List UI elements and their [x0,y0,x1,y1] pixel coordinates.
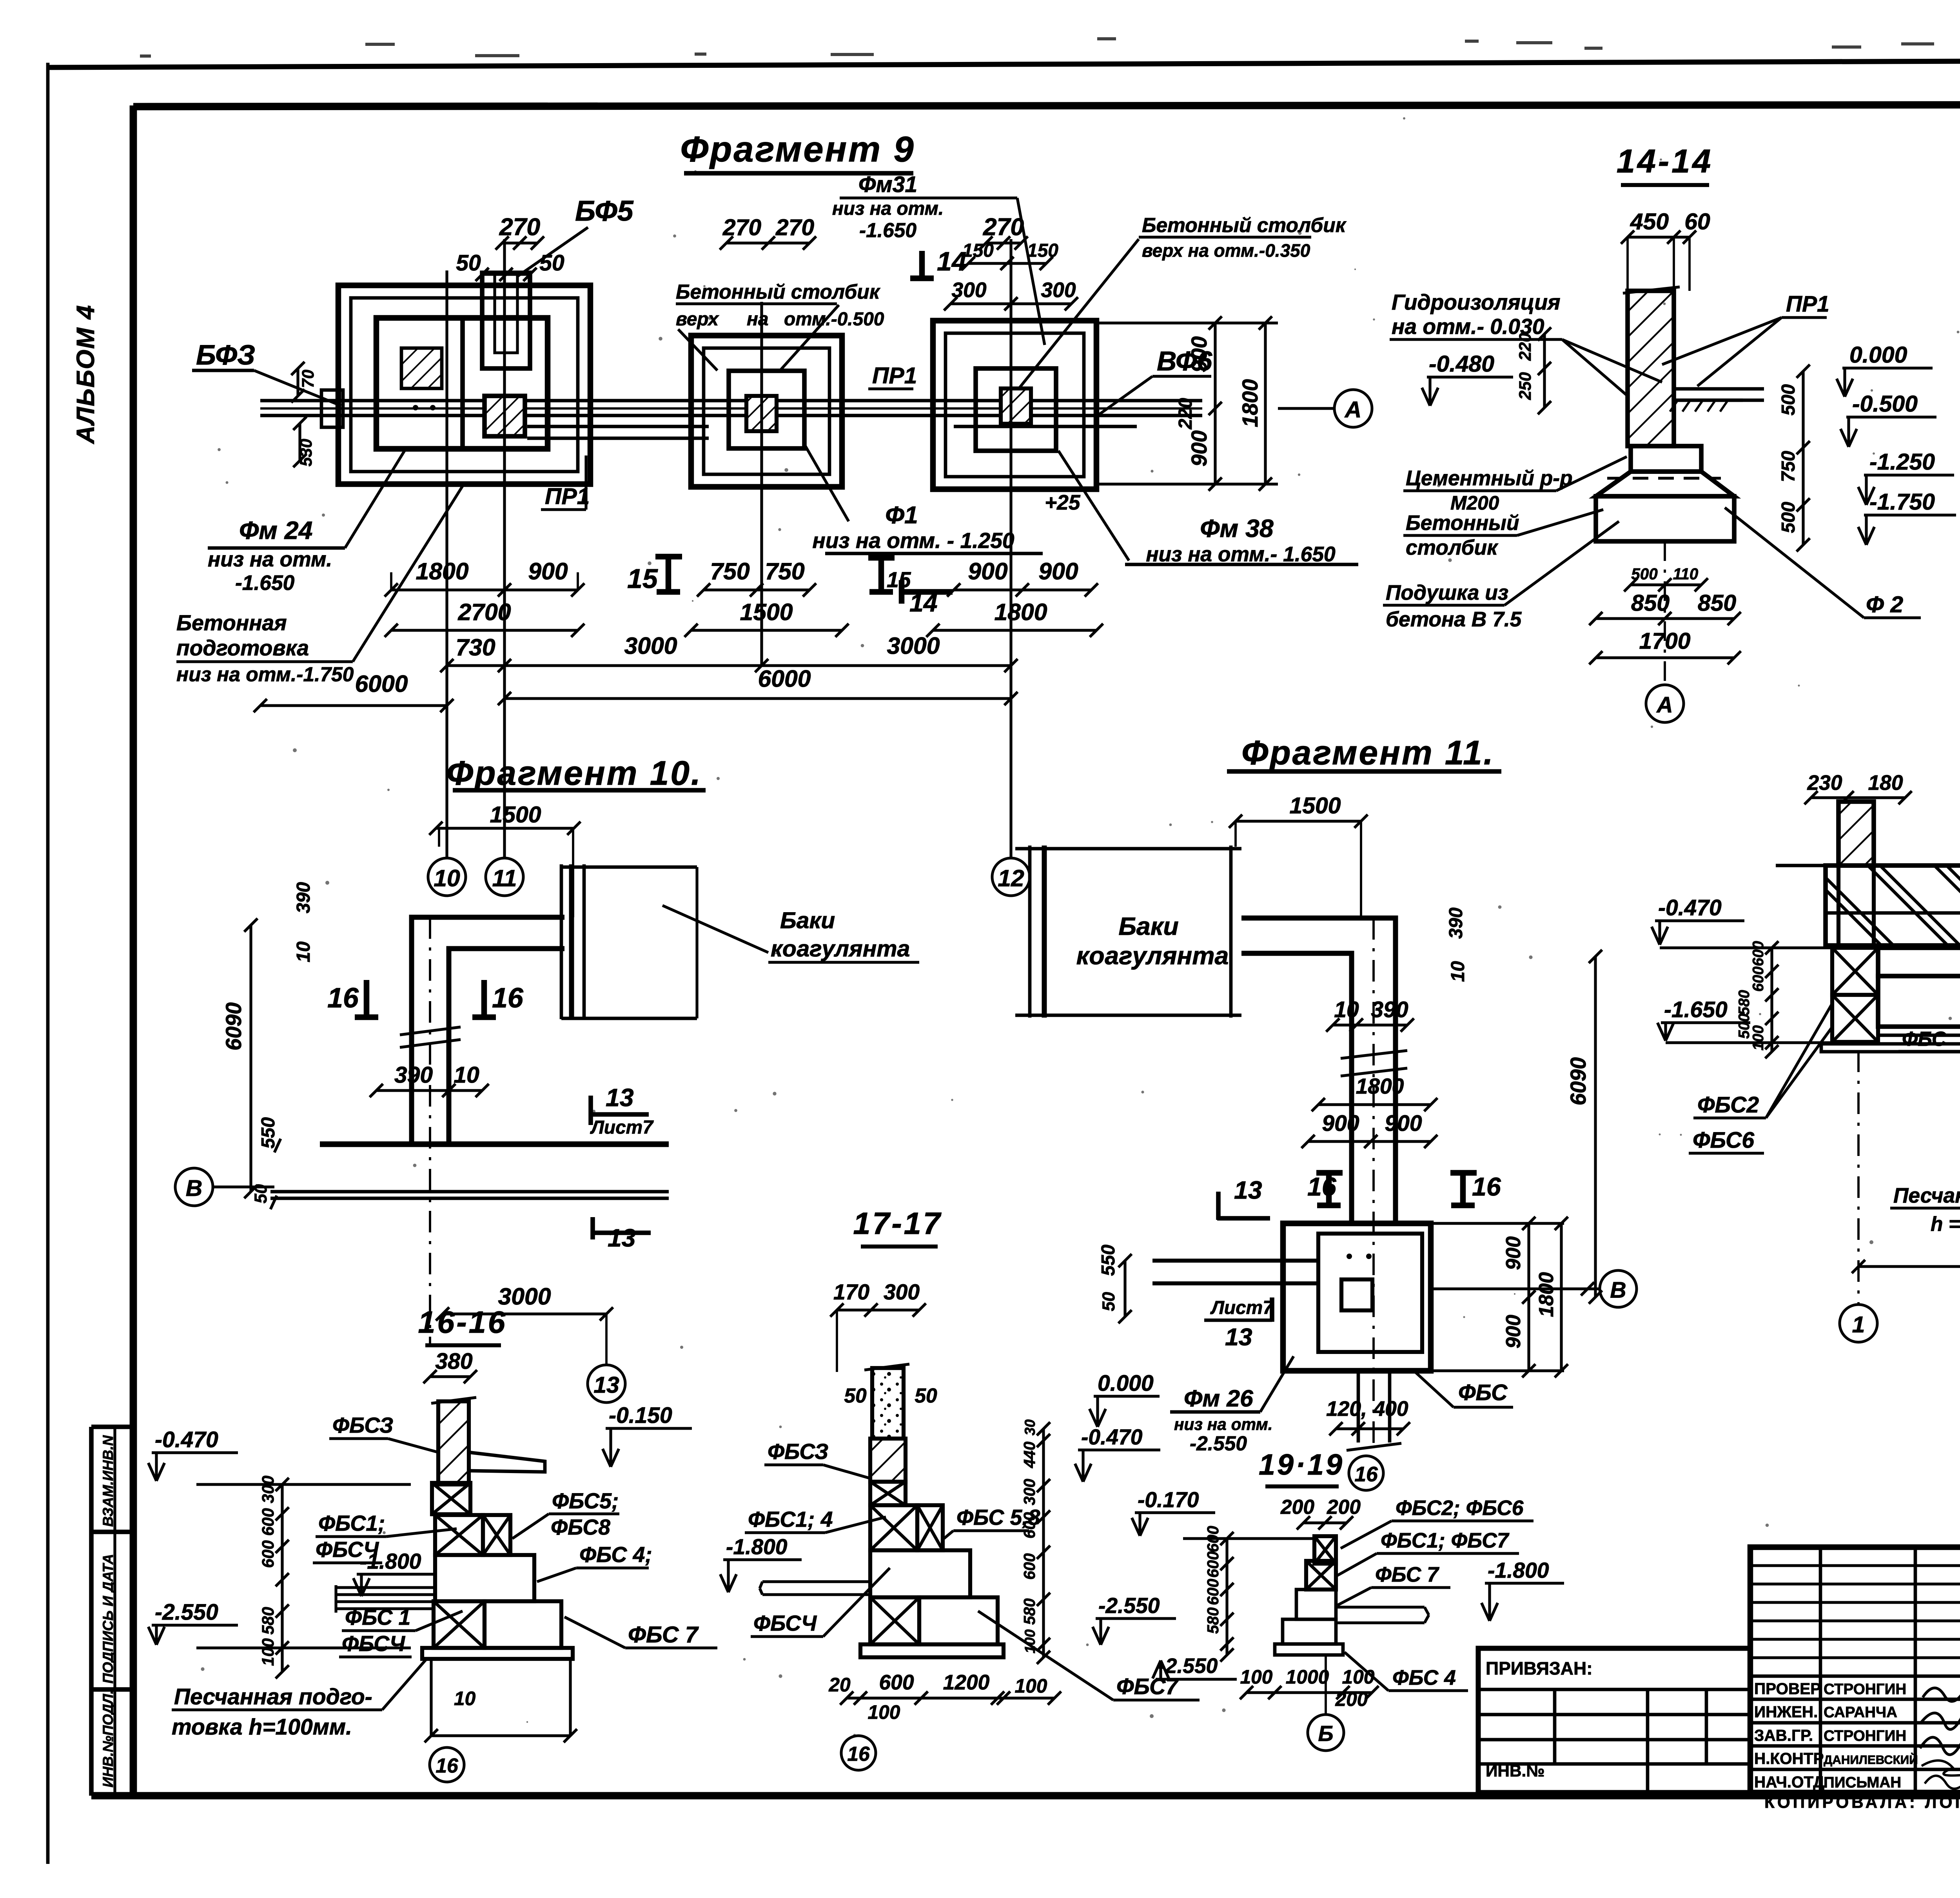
svg-text:Н.КОНТР: Н.КОНТР [1754,1749,1824,1767]
svg-text:коагулянта: коагулянта [1076,942,1229,970]
svg-text:ПР1: ПР1 [545,484,590,509]
svg-text:-1.650: -1.650 [235,572,295,595]
svg-text:150: 150 [1027,240,1058,261]
svg-text:13: 13 [1225,1323,1252,1351]
svg-text:300: 300 [884,1280,920,1304]
svg-text:13: 13 [606,1083,634,1112]
svg-text:h = 100 мм.: h = 100 мм. [1931,1212,1960,1235]
svg-text:ИНВ.№ПОДЛ.: ИНВ.№ПОДЛ. [100,1690,116,1787]
svg-text:50: 50 [251,1184,270,1203]
svg-text:300: 300 [1041,279,1076,302]
svg-text:товка h=100мм.: товка h=100мм. [172,1715,352,1740]
svg-text:СТРОНГИН: СТРОНГИН [1824,1727,1906,1744]
svg-text:ФБС 4;: ФБС 4; [579,1542,652,1567]
svg-text:коагулянта: коагулянта [771,936,910,962]
svg-text:-1.800: -1.800 [1488,1558,1549,1582]
svg-text:390: 390 [1371,997,1408,1022]
svg-text:ФБС 4: ФБС 4 [1392,1666,1456,1689]
svg-text:ФБС 7: ФБС 7 [628,1622,699,1648]
svg-text:300: 300 [1020,1479,1038,1505]
svg-text:-2.550: -2.550 [1098,1593,1160,1618]
svg-text:16: 16 [847,1742,870,1765]
svg-text:ПР1: ПР1 [1786,292,1829,317]
svg-text:13: 13 [608,1224,636,1252]
svg-text:100: 100 [1240,1666,1273,1688]
svg-text:270: 270 [983,213,1024,241]
svg-text:6000: 6000 [355,670,408,697]
svg-text:900: 900 [1038,558,1078,584]
svg-text:ПРИВЯЗАН:: ПРИВЯЗАН: [1486,1658,1593,1678]
svg-text:Б: Б [1318,1722,1333,1746]
svg-text:100: 100 [1022,1629,1038,1653]
svg-text:1: 1 [1852,1312,1865,1337]
svg-text:550: 550 [1098,1245,1119,1276]
svg-text:900: 900 [1322,1111,1359,1136]
svg-text:450: 450 [1630,209,1669,234]
svg-text:0.000: 0.000 [1849,342,1907,368]
svg-text:270: 270 [775,215,814,240]
svg-text:390: 390 [1446,907,1466,939]
svg-text:380: 380 [435,1349,472,1374]
svg-text:110: 110 [1673,565,1699,583]
svg-text:Фм 26: Фм 26 [1184,1385,1254,1412]
svg-text:низ на отм.-1.750: низ на отм.-1.750 [176,663,354,686]
svg-text:10: 10 [454,1062,479,1088]
svg-text:750: 750 [765,558,805,584]
svg-text:верх на отм.-0.350: верх на отм.-0.350 [1142,240,1310,261]
svg-text:10: 10 [1448,961,1468,982]
svg-text:ДАНИЛЕВСКИЙ: ДАНИЛЕВСКИЙ [1824,1753,1918,1767]
svg-text:низ на отм.: низ на отм. [832,198,944,219]
svg-text:1800: 1800 [1535,1272,1557,1317]
svg-text:СТРОНГИН: СТРОНГИН [1824,1681,1906,1698]
svg-text:10: 10 [293,941,314,962]
svg-text:-1.800: -1.800 [726,1535,788,1559]
svg-text:низ на отм. - 1.250: низ на отм. - 1.250 [812,528,1014,553]
svg-text:Баки: Баки [1118,912,1178,940]
svg-text:16: 16 [1472,1172,1501,1201]
svg-text:750: 750 [1778,451,1799,482]
svg-text:100: 100 [1015,1675,1047,1697]
svg-text:0.000: 0.000 [1098,1371,1154,1396]
svg-text:ФБС: ФБС [1458,1380,1508,1405]
svg-text:900: 900 [1187,336,1211,372]
svg-text:500: 500 [1778,502,1799,533]
svg-text:300: 300 [259,1475,277,1503]
svg-text:50: 50 [844,1384,867,1407]
svg-text:А: А [1344,397,1362,423]
svg-text:230: 230 [1807,771,1842,795]
svg-text:600: 600 [259,1540,277,1568]
svg-text:390: 390 [394,1062,433,1088]
svg-text:1200: 1200 [943,1671,990,1694]
svg-text:Баки: Баки [780,908,835,933]
svg-text:ФБС1;: ФБС1; [318,1511,385,1535]
svg-text:600: 600 [259,1508,277,1536]
svg-text:ПИСЬМАН: ПИСЬМАН [1824,1774,1901,1791]
svg-text:Бетонная: Бетонная [176,611,287,635]
svg-text:Бетонный столбик: Бетонный столбик [1142,214,1347,236]
svg-text:1500: 1500 [740,599,793,625]
svg-text:Фм31: Фм31 [858,172,917,197]
svg-text:верх: верх [676,309,719,330]
svg-text:-1.650: -1.650 [1664,997,1728,1022]
svg-text:низ на отм.: низ на отм. [1174,1415,1273,1433]
svg-text:150: 150 [962,240,994,261]
svg-text:900: 900 [1502,1315,1524,1348]
svg-text:1800: 1800 [1238,379,1262,427]
svg-text:ФБС 7: ФБС 7 [1375,1563,1439,1586]
svg-text:3000: 3000 [624,632,677,659]
svg-text:-0.500: -0.500 [1852,391,1918,417]
svg-text:100: 100 [1750,1025,1767,1051]
svg-text:17-17: 17-17 [853,1206,942,1241]
svg-text:ИНВ.№: ИНВ.№ [1486,1762,1544,1780]
svg-text:600: 600 [879,1671,914,1694]
svg-text:подготовка: подготовка [176,636,309,660]
svg-text:1800: 1800 [1356,1074,1404,1098]
svg-text:-1.800: -1.800 [360,1549,421,1573]
svg-text:ЗАВ.ГР.: ЗАВ.ГР. [1754,1726,1813,1744]
svg-text:низ на отм.: низ на отм. [208,548,332,571]
svg-text:850: 850 [1698,590,1736,616]
svg-text:270: 270 [722,215,761,240]
svg-text:КОПИРОВАЛА: ЛОГИНОВА: КОПИРОВАЛА: ЛОГИНОВА [1764,1793,1960,1811]
svg-text:250: 250 [1516,372,1534,400]
svg-text:Песчаная подготовка: Песчаная подготовка [1893,1184,1960,1207]
svg-text:30: 30 [1022,1419,1038,1435]
svg-text:13: 13 [1234,1176,1262,1204]
svg-text:+25: +25 [1045,491,1081,514]
svg-text:ФБС8: ФБС8 [551,1515,610,1539]
svg-text:ПРОВЕР.: ПРОВЕР. [1754,1680,1823,1698]
svg-text:-0.150: -0.150 [609,1403,672,1428]
svg-text:Песчанная подго-: Песчанная подго- [174,1684,372,1709]
svg-text:600: 600 [1020,1553,1038,1580]
svg-text:15: 15 [627,563,658,594]
svg-text:900: 900 [528,558,568,584]
svg-text:6000: 6000 [758,665,811,692]
svg-text:10: 10 [454,1688,476,1709]
svg-text:100: 100 [259,1638,277,1666]
svg-text:580: 580 [1204,1607,1222,1634]
svg-text:120,: 120, [1326,1397,1367,1421]
svg-text:14: 14 [909,589,938,617]
svg-text:-1.750: -1.750 [1869,489,1935,515]
svg-text:Лист7: Лист7 [1210,1297,1274,1318]
svg-text:580: 580 [1020,1598,1038,1625]
svg-text:столбик: столбик [1406,536,1499,559]
svg-text:НАЧ.ОТД: НАЧ.ОТД [1754,1773,1824,1791]
svg-text:16: 16 [436,1754,458,1777]
svg-text:1500: 1500 [490,802,541,827]
svg-text:АЛЬБОМ 4: АЛЬБОМ 4 [71,305,100,445]
svg-text:3000: 3000 [887,632,940,659]
svg-text:16: 16 [1354,1463,1378,1486]
svg-text:600: 600 [1204,1526,1222,1552]
svg-text:В: В [186,1176,203,1201]
svg-text:50: 50 [539,250,564,276]
svg-text:Лист7: Лист7 [590,1117,654,1138]
svg-text:220: 220 [1175,398,1196,430]
svg-text:-0.470: -0.470 [155,1427,218,1452]
svg-text:Фм 38: Фм 38 [1200,514,1274,543]
svg-text:низ на отм.- 1.650: низ на отм.- 1.650 [1146,543,1336,566]
svg-text:11: 11 [492,865,517,891]
svg-text:200: 200 [1280,1495,1314,1518]
svg-text:200: 200 [1327,1495,1361,1518]
svg-text:Бетонный столбик: Бетонный столбик [676,280,881,303]
svg-text:-0.170: -0.170 [1138,1488,1199,1512]
svg-text:50: 50 [915,1384,937,1407]
svg-text:20: 20 [828,1674,851,1696]
svg-text:600: 600 [1020,1512,1038,1539]
svg-text:бетона В 7.5: бетона В 7.5 [1386,608,1522,631]
svg-text:6090: 6090 [221,1002,246,1051]
svg-text:Ф1: Ф1 [885,501,918,529]
svg-text:900: 900 [1385,1111,1422,1136]
svg-text:Фрагмент 10.: Фрагмент 10. [446,754,702,792]
svg-text:600: 600 [1750,941,1767,966]
svg-text:ВЗАМ.ИНВ.N: ВЗАМ.ИНВ.N [100,1435,116,1527]
svg-text:1000: 1000 [1286,1666,1329,1688]
svg-text:Гидроизоляция: Гидроизоляция [1392,290,1561,314]
svg-text:50: 50 [456,250,481,276]
svg-text:ФБС5;: ФБС5; [552,1489,619,1513]
svg-text:-2.550: -2.550 [1190,1432,1247,1455]
svg-text:12: 12 [998,865,1024,891]
svg-text:ПР1: ПР1 [872,363,917,388]
svg-text:ФБСЗ: ФБСЗ [332,1413,393,1437]
svg-text:-1.650: -1.650 [859,219,916,241]
svg-text:-0.480: -0.480 [1429,351,1494,377]
svg-text:440: 440 [1020,1441,1038,1468]
svg-text:ФБСЧ: ФБСЧ [342,1631,406,1656]
svg-text:730: 730 [456,634,495,660]
svg-text:Ф 2: Ф 2 [1866,592,1903,617]
svg-text:-0.470: -0.470 [1658,895,1722,920]
svg-text:60: 60 [1684,209,1710,234]
svg-text:ФБС 1: ФБС 1 [345,1605,410,1629]
svg-text:10: 10 [434,865,460,891]
svg-text:-2.550: -2.550 [155,1600,218,1625]
svg-text:ПОДПИСЬ И ДАТА: ПОДПИСЬ И ДАТА [100,1554,116,1684]
svg-text:М200: М200 [1450,492,1499,514]
svg-text:ФБС1; ФБС7: ФБС1; ФБС7 [1381,1529,1510,1552]
svg-text:Фм 24: Фм 24 [239,516,312,544]
svg-text:100: 100 [1342,1666,1375,1688]
svg-text:2700: 2700 [457,599,511,625]
svg-text:Бетонный: Бетонный [1406,512,1519,535]
svg-text:16: 16 [1307,1172,1337,1201]
svg-text:170: 170 [833,1280,869,1304]
svg-text:50: 50 [1099,1292,1118,1311]
svg-text:100: 100 [868,1701,900,1723]
svg-text:1500: 1500 [1290,793,1341,818]
svg-text:на: на [747,309,769,330]
svg-text:В: В [1610,1277,1626,1303]
svg-text:16: 16 [327,982,359,1014]
svg-text:500: 500 [1778,384,1799,416]
svg-text:-0.470: -0.470 [1081,1425,1143,1449]
svg-text:14: 14 [937,247,967,276]
svg-text:БФЗ: БФЗ [196,339,255,371]
svg-text:16-16: 16-16 [418,1305,507,1339]
svg-text:ФБС: ФБС [1902,1027,1947,1050]
svg-text:ИНЖЕН.: ИНЖЕН. [1754,1703,1818,1721]
svg-text:580: 580 [259,1607,277,1635]
svg-text:16: 16 [492,982,524,1014]
svg-text:ФБС2: ФБС2 [1697,1092,1759,1118]
svg-text:13: 13 [593,1372,619,1398]
svg-text:ФБС2; ФБС6: ФБС2; ФБС6 [1396,1497,1524,1520]
svg-text:ФБСЗ: ФБСЗ [768,1439,828,1464]
svg-text:Подушка из: Подушка из [1386,581,1508,604]
svg-text:6090: 6090 [1566,1057,1590,1105]
svg-text:Фрагмент 11.: Фрагмент 11. [1241,733,1495,772]
svg-text:180: 180 [1868,771,1903,795]
svg-text:Цементный р-р: Цементный р-р [1406,467,1573,490]
svg-text:600: 600 [1750,966,1767,992]
svg-text:900: 900 [1187,430,1211,466]
svg-text:900: 900 [968,558,1008,584]
svg-text:900: 900 [1502,1236,1524,1270]
svg-text:14-14: 14-14 [1617,142,1713,180]
svg-text:550: 550 [258,1117,279,1149]
svg-text:-1.250: -1.250 [1869,449,1935,475]
svg-text:ФБС1; 4: ФБС1; 4 [748,1507,833,1531]
svg-text:580: 580 [1736,990,1753,1015]
svg-text:19·19: 19·19 [1259,1448,1344,1481]
svg-text:200: 200 [1335,1688,1368,1710]
svg-text:70: 70 [299,369,317,388]
svg-text:Фрагмент 9: Фрагмент 9 [680,129,915,169]
svg-text:600: 600 [1204,1579,1222,1605]
svg-text:1800: 1800 [994,599,1047,625]
svg-text:САРАНЧА: САРАНЧА [1824,1704,1897,1721]
svg-text:БФ5: БФ5 [575,194,634,227]
svg-text:ФБСЧ: ФБСЧ [753,1611,817,1635]
svg-text:220: 220 [1516,333,1534,361]
svg-text:1800: 1800 [416,558,468,584]
svg-text:270: 270 [499,213,541,241]
svg-text:750: 750 [710,558,750,584]
svg-text:390: 390 [293,882,314,913]
svg-text:А: А [1656,692,1673,717]
svg-text:600: 600 [1204,1551,1222,1578]
svg-text:ФБС6: ФБС6 [1693,1128,1755,1153]
